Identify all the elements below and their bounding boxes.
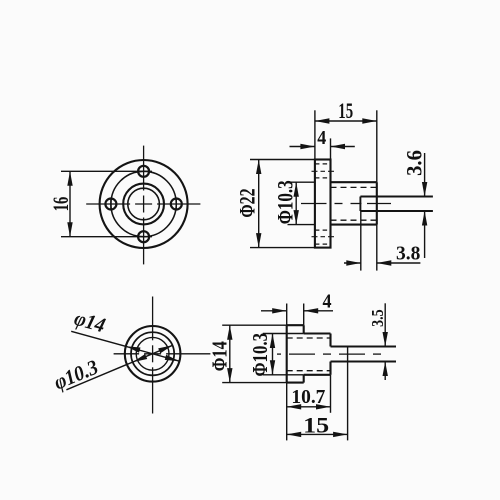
collar left edge extensions bbox=[286, 304, 288, 441]
svg-text:4: 4 bbox=[323, 291, 332, 313]
vertical centerline bbox=[143, 146, 145, 265]
dimension 15 line bbox=[287, 433, 348, 435]
flange bolt hole hidden lines top bbox=[315, 164, 331, 178]
body top edge bbox=[304, 332, 331, 334]
dimension 16 extension lines bbox=[61, 171, 152, 236]
collar bottom edge bbox=[287, 382, 304, 384]
screw shaft top line bbox=[360, 196, 433, 198]
leader phi10.3 text bbox=[50, 355, 101, 395]
dimension 3.5 text bbox=[368, 309, 387, 327]
collar step verticals bbox=[303, 325, 305, 382]
thread hidden lines bbox=[331, 187, 377, 220]
dimension 4 text bbox=[317, 127, 326, 149]
svg-text:3.8: 3.8 bbox=[396, 243, 420, 265]
svg-text:15: 15 bbox=[338, 98, 353, 123]
svg-text:4: 4 bbox=[317, 127, 326, 149]
svg-text:3.5: 3.5 bbox=[368, 309, 387, 327]
left hole tick bbox=[110, 198, 112, 211]
svg-text:Φ10.3: Φ10.3 bbox=[248, 333, 272, 377]
dimension 15 line bbox=[315, 120, 377, 122]
svg-text:15: 15 bbox=[303, 412, 329, 437]
middle circle phi10.3 bbox=[131, 332, 174, 375]
collar top edge bbox=[287, 324, 304, 326]
leader phi14 line bbox=[71, 331, 179, 361]
bore circle phi10.3 bbox=[123, 184, 164, 225]
dimension phi22 text bbox=[234, 188, 259, 217]
svg-text:Φ14: Φ14 bbox=[208, 341, 232, 371]
dimension phi10.3 text bbox=[273, 180, 298, 224]
dimension phi14 line bbox=[229, 325, 231, 382]
bolt hole bottom bbox=[138, 231, 149, 242]
dimension 10.7 extension bbox=[330, 375, 332, 413]
dimension phi10.3 extension lines bbox=[288, 182, 315, 224]
bottom view centerline bbox=[277, 353, 381, 355]
horizontal centerline bbox=[114, 353, 211, 355]
svg-text:φ10.3: φ10.3 bbox=[50, 355, 101, 395]
dimension 3.6 text bbox=[402, 150, 427, 176]
leader phi10.3 line bbox=[66, 345, 172, 390]
dimension phi10.3 line bbox=[272, 334, 274, 375]
leader phi14 text bbox=[72, 306, 108, 337]
dimension 10.7 line bbox=[287, 406, 331, 408]
shaft bottom line bbox=[331, 361, 397, 363]
svg-text:Φ22: Φ22 bbox=[234, 188, 259, 217]
dimension 3.5 lines bbox=[384, 303, 386, 380]
body bottom edge bbox=[331, 224, 377, 226]
svg-text:3.6: 3.6 bbox=[402, 150, 427, 176]
collar left edge bbox=[286, 325, 288, 382]
bolt hole top bbox=[138, 166, 149, 177]
dimension 4 text bbox=[323, 291, 332, 313]
flange outer circle bbox=[100, 160, 188, 248]
dimension 4 line with outside arrows bbox=[261, 310, 333, 312]
svg-text:Φ10.3: Φ10.3 bbox=[273, 180, 298, 224]
dimension phi22 line bbox=[258, 160, 260, 248]
dimension 16 text bbox=[48, 197, 73, 212]
side view centerline bbox=[301, 203, 391, 205]
dimension 4 line with outside arrows bbox=[290, 146, 355, 148]
dimension phi22 extension lines bbox=[250, 160, 315, 248]
end face line and 15 extension bbox=[347, 347, 349, 441]
dimension phi10.3 text bbox=[248, 333, 272, 377]
svg-text:16: 16 bbox=[48, 197, 73, 212]
body right edge bbox=[376, 182, 378, 224]
dimension phi10.3 extension lines bbox=[263, 334, 304, 375]
bolt hole right bbox=[171, 199, 182, 210]
dimension phi10.3 line bbox=[295, 182, 297, 224]
shaft top line bbox=[331, 346, 397, 348]
dimension 4 extension line bbox=[330, 138, 332, 159]
svg-text:10.7: 10.7 bbox=[291, 386, 325, 408]
dimension phi14 text bbox=[208, 341, 232, 371]
body bottom edge bbox=[304, 374, 331, 376]
body right edge extension for 3.8 bbox=[376, 225, 378, 271]
dimension 3.8 text bbox=[396, 243, 420, 265]
dimension 3.8 extension line at shaft end bbox=[360, 211, 362, 271]
dimension phi14 extension lines bbox=[222, 325, 287, 382]
screw shaft bottom line bbox=[360, 210, 433, 212]
right hole tick bbox=[175, 198, 177, 211]
dimension 4 extension bbox=[303, 304, 305, 326]
flange bolt hole hidden lines bottom bbox=[315, 230, 331, 244]
dimension 16 line with arrows bbox=[69, 171, 71, 236]
inner circle phi8 bbox=[136, 337, 169, 370]
flange hole centerlines bbox=[312, 171, 335, 236]
screw shaft left cap bbox=[359, 197, 361, 212]
dimension 15 extension lines bbox=[315, 110, 377, 182]
dimension 10.7 text bbox=[291, 386, 325, 408]
bolt hole left bbox=[105, 199, 116, 210]
outer circle phi14 bbox=[125, 326, 181, 382]
dimension 3.6 lines bbox=[424, 153, 426, 258]
bolt circle bbox=[111, 171, 176, 236]
dimension 3.8 line bbox=[344, 262, 420, 264]
vertical centerline bbox=[152, 297, 154, 414]
horizontal centerline bbox=[86, 203, 200, 205]
dimension 15 text bbox=[338, 98, 353, 123]
flange rectangle bbox=[315, 160, 331, 248]
dimension 15 text bbox=[303, 412, 329, 437]
body top edge bbox=[331, 181, 377, 183]
body step verticals bbox=[329, 334, 331, 375]
thread circle phi8 bbox=[128, 188, 160, 220]
thread hidden lines bbox=[287, 338, 331, 371]
